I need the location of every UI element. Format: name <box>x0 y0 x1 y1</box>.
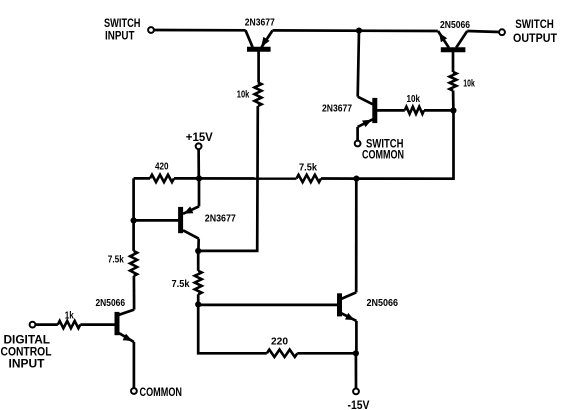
label R3 420 <box>155 162 169 173</box>
svg-text:7.5k: 7.5k <box>172 279 190 290</box>
terminal DIGITAL CONTROL INPUT <box>30 322 36 328</box>
wire Q2 base lead <box>452 52 455 72</box>
terminal COMMON <box>131 388 137 394</box>
node G junction <box>353 350 359 356</box>
terminal +15V <box>196 143 202 149</box>
label Q2 2N5066 <box>440 20 470 31</box>
resistor R1 10k (vertical) <box>255 82 262 106</box>
transistor Q4 2N3677 (middle) <box>181 206 199 238</box>
terminal -15V <box>353 389 359 395</box>
node D6 junction <box>195 248 201 254</box>
wire Q4 collector to node D6 <box>197 239 200 251</box>
svg-text:2N5066: 2N5066 <box>440 20 470 31</box>
label -15V <box>348 398 370 410</box>
svg-text:INPUT: INPUT <box>9 356 46 370</box>
node D junction (+15V tap) <box>196 175 202 181</box>
label R7 220 <box>271 336 288 347</box>
wire Q1 base lead <box>257 51 260 83</box>
transistor Q6 2N5066 (bottom left) <box>117 310 134 342</box>
resistor R3 420 (horizontal) <box>150 175 174 182</box>
wire R8 to Q6 base <box>80 323 115 326</box>
label Q3 2N3677 <box>322 104 352 115</box>
label +15V <box>186 130 213 144</box>
svg-text:2N3677: 2N3677 <box>245 17 275 28</box>
node E junction <box>131 217 137 223</box>
wire 220 to node G <box>297 352 356 355</box>
label Q4 2N3677 <box>205 214 236 225</box>
label Q5 2N5066 <box>367 298 399 309</box>
transistor Q1 2N3677 (top) <box>246 30 273 49</box>
wire 7.5k to node C <box>321 177 356 180</box>
label SWITCH INPUT <box>104 16 141 43</box>
wire input terminal to R8 <box>35 323 57 326</box>
wire R9 to node B <box>424 109 453 112</box>
wire Q2 collector to output terminal <box>467 31 499 32</box>
svg-text:7.5k: 7.5k <box>108 255 124 266</box>
wire node D to Q4 emitter <box>198 178 201 206</box>
label DIGITAL CONTROL INPUT <box>1 333 52 371</box>
label Q6 2N5066 <box>96 298 126 309</box>
wire node F down to 220 <box>198 304 267 353</box>
node C junction <box>353 176 359 182</box>
svg-text:7.5k: 7.5k <box>299 163 317 174</box>
svg-text:10k: 10k <box>237 90 250 101</box>
svg-text:COMMON: COMMON <box>140 385 183 399</box>
wire input to Q1 collector <box>154 29 246 32</box>
node F junction <box>195 301 201 307</box>
svg-text:-15V: -15V <box>348 398 370 410</box>
svg-text:220: 220 <box>271 336 288 347</box>
wire node A to Q3 collector <box>358 31 359 97</box>
wire 420 to 7.5k <box>174 177 297 180</box>
label R5 7.5k <box>108 255 124 266</box>
wire Q6 emitter to common terminal <box>133 342 136 388</box>
wire Q5 collector to node C <box>355 179 358 293</box>
node B junction <box>450 107 456 113</box>
label R9 10k <box>407 94 421 105</box>
wire R1 to corner node D6 <box>198 106 258 251</box>
transistor Q5 2N5066 (bottom right) <box>340 292 357 321</box>
svg-text:SWITCH: SWITCH <box>515 17 554 31</box>
resistor R6 7.5k (vertical) <box>195 271 202 295</box>
wire R6 to node F <box>197 294 200 304</box>
svg-text:2N5066: 2N5066 <box>96 298 126 309</box>
label SWITCH OUTPUT <box>513 17 558 45</box>
resistor R5 7.5k (vertical) <box>130 251 137 276</box>
label R8 1k <box>65 310 74 321</box>
wire +15V to bus <box>197 149 200 178</box>
terminal SWITCH OUTPUT <box>499 29 505 35</box>
label R2 10k <box>463 79 475 90</box>
svg-text:1k: 1k <box>65 310 74 321</box>
resistor R7 220 (horizontal) <box>267 350 298 357</box>
svg-text:420: 420 <box>155 162 169 173</box>
svg-text:10k: 10k <box>463 79 475 90</box>
label Q1 2N3677 <box>245 17 275 28</box>
label R1 10k <box>237 90 250 101</box>
resistor R8 1k (horizontal) <box>58 321 81 328</box>
svg-text:+15V: +15V <box>186 130 213 144</box>
transistor Q3 2N3677 (mid right) <box>358 97 375 127</box>
label SWITCH COMMON <box>362 136 404 161</box>
wire node D6 to R6 <box>197 251 200 271</box>
svg-text:2N3677: 2N3677 <box>322 104 352 115</box>
wire Q3 emitter to switch-common terminal <box>356 127 359 141</box>
resistor R2 10k (vertical) <box>450 72 457 91</box>
svg-text:2N3677: 2N3677 <box>205 214 236 225</box>
label R4 7.5k <box>299 163 317 174</box>
svg-text:COMMON: COMMON <box>362 147 404 161</box>
wire Q3 base to R9 <box>377 109 405 112</box>
node A junction <box>356 28 362 34</box>
terminal SWITCH COMMON <box>355 141 361 147</box>
svg-text:2N5066: 2N5066 <box>367 298 399 309</box>
wire node F to Q5 base <box>198 304 337 307</box>
wire R2 to node B <box>452 91 455 111</box>
label COMMON <box>140 385 183 399</box>
wire bus left corner to 420 <box>134 177 150 180</box>
resistor R9 10k (horizontal) <box>405 107 424 114</box>
wire node B down to bus <box>356 111 453 179</box>
terminal SWITCH INPUT <box>148 27 154 33</box>
wire node G to -15V terminal <box>355 353 358 388</box>
wire R5 to Q5 collector <box>133 276 136 310</box>
wire Q1 emitter to node A <box>273 29 438 32</box>
resistor R4 7.5k (horizontal) <box>297 175 322 182</box>
wire Q5 emitter down to node G <box>355 321 358 353</box>
wire bus corner down left branch <box>132 178 135 251</box>
wire node E to Q4 base <box>134 219 179 222</box>
svg-text:OUTPUT: OUTPUT <box>513 31 558 45</box>
svg-text:INPUT: INPUT <box>105 29 135 43</box>
label R6 7.5k <box>172 279 190 290</box>
svg-text:10k: 10k <box>407 94 421 105</box>
transistor Q2 2N5066 (top right) <box>438 31 467 50</box>
